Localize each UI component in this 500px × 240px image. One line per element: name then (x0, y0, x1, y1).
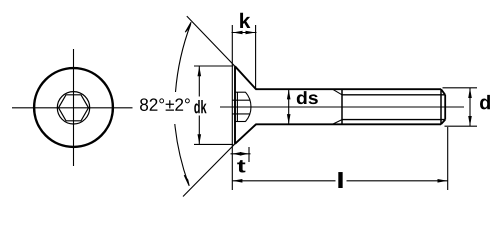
end face (444, 95, 446, 120)
d dimension line (469, 88, 471, 126)
angle extension line lower (183, 144, 235, 197)
angle dimension arc lower (175, 124, 189, 184)
dk dimension line lower part (198, 116, 200, 145)
angle dimension arc upper (176, 24, 191, 92)
head cone bottom slant (235, 124, 256, 144)
ds arrow top (287, 89, 291, 99)
socket inner line lower (233, 113, 250, 115)
socket top edge (235, 91, 246, 93)
k extension line right (255, 25, 257, 89)
d arrow bottom (468, 116, 472, 126)
screw head face (234, 66, 236, 144)
l dimension line right part (347, 180, 448, 182)
end chamfer vertical (440, 89, 442, 124)
arc arrowhead top (185, 22, 191, 32)
socket bottom arc (246, 92, 251, 121)
ds dimension line (288, 89, 290, 124)
shank bottom edge (256, 123, 442, 125)
d extension line bottom (445, 125, 478, 127)
hex socket side view: chamfer vertical (236, 92, 238, 121)
k arrow right (246, 31, 256, 35)
dk arrow top (198, 66, 202, 76)
t label (237, 160, 245, 172)
l dimension line left part (232, 180, 335, 182)
thread start vertical (341, 89, 343, 124)
head cone top slant (235, 66, 256, 89)
k dimension line (232, 32, 257, 34)
t extension line right (248, 147, 250, 162)
l arrow right (438, 179, 448, 183)
thread minor diameter line bottom (342, 119, 445, 121)
hex socket (front view) (59, 95, 89, 121)
end chamfer diagonal bottom (441, 120, 445, 125)
k label (240, 13, 250, 28)
k arrow left (233, 31, 243, 35)
dk arrow bottom (198, 134, 202, 144)
dk label (194, 100, 206, 113)
dk dimension line upper part (198, 66, 200, 97)
l label (338, 172, 342, 188)
front view vertical centerline (73, 49, 75, 166)
thread minor diameter line top (342, 94, 445, 96)
side view centerline (220, 106, 464, 108)
socket bottom edge (235, 121, 246, 123)
thread runout diagonal top (333, 89, 343, 95)
l arrow left (232, 179, 242, 183)
front view horizontal centerline (12, 107, 133, 109)
thread runout diagonal bottom (333, 120, 343, 125)
ds arrow bottom (287, 114, 291, 124)
d arrow top (468, 88, 472, 98)
t arrow right (240, 152, 249, 156)
end chamfer diagonal top (441, 89, 445, 95)
angle label 82 deg (140, 98, 190, 111)
socket chamfer circle (57, 92, 89, 124)
head outer circle (34, 68, 113, 147)
l extension line right (447, 127, 449, 190)
d extension line top (443, 87, 478, 89)
arc arrowhead bottom (184, 175, 189, 186)
socket inner line upper (233, 99, 250, 101)
ds label (297, 91, 318, 104)
dk extension line bottom (194, 143, 233, 145)
t arrow left (232, 152, 241, 156)
shank top edge (256, 88, 442, 90)
d label (480, 95, 490, 110)
t dimension line (231, 153, 251, 155)
angle extension line upper (187, 16, 236, 67)
dk extension line top (194, 65, 233, 67)
k extension line left / t left / l left shared vertical (231, 25, 233, 190)
